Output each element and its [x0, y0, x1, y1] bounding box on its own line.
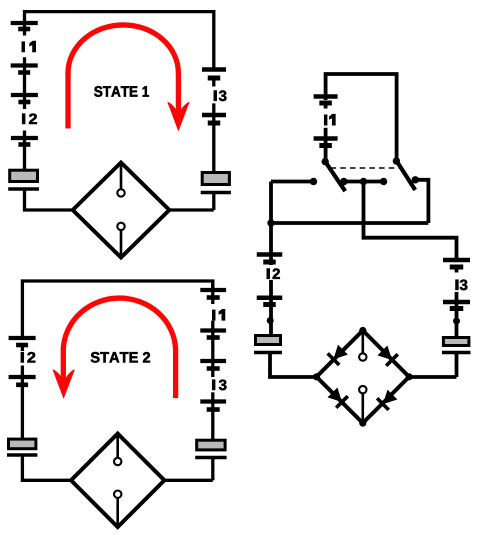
switch pivot left (right circuit) [322, 158, 329, 165]
diode D1 top-left arm (right circuit) [328, 345, 348, 365]
wire stub below I3 cell1 (right) [455, 269, 459, 273]
label I2 (STATE 2) [21, 352, 35, 363]
wire right lead from bridge (STATE 1) [169, 208, 214, 211]
label I2 (STATE 1) [22, 114, 37, 125]
battery I2 cell 2 (right) [257, 298, 283, 305]
bridge top stem (right circuit) [361, 331, 364, 353]
diode bridge diamond (right circuit) [317, 331, 410, 424]
wire top loop (right circuit) [326, 74, 397, 159]
battery I2 cell 1 (STATE 2) [9, 338, 36, 345]
battery I3 cell 2 (STATE 1) [202, 115, 226, 123]
battery I3 cell 1 (right) [443, 260, 470, 267]
wire throw A to left column (right circuit) [271, 180, 314, 184]
wire left column to I2 (right circuit) [269, 182, 273, 266]
wire E to right riser (right circuit) [415, 180, 428, 223]
bridge vertex dot right (right circuit) [406, 373, 413, 380]
battery I3 cell 2 (right) [443, 302, 470, 309]
bridge vertex dot top (right circuit) [359, 327, 366, 334]
battery I1 cell 2 (right) [314, 139, 338, 146]
wire right lead from bridge (right circuit) [409, 375, 457, 379]
wire left lead to bridge (STATE 2) [22, 455, 72, 480]
red current arrow STATE 1 [68, 25, 190, 132]
bridge top contact circle (STATE 1) [117, 189, 124, 196]
switch blade left (right circuit) [325, 162, 345, 192]
wire long horizontal bus (right circuit) [271, 221, 428, 225]
battery I3 cell 1 (STATE 1) [202, 70, 226, 79]
wire right column lower (right circuit) [455, 353, 459, 378]
battery I3 cell 1 (STATE 2) [200, 361, 226, 369]
diode D3 bottom-left arm (right circuit) [328, 388, 348, 408]
battery I2 cell 1 (right) [257, 255, 283, 263]
electrode capacitor right (right circuit) [442, 338, 471, 353]
red current arrow STATE 2 [52, 298, 175, 399]
text STATE 2 [91, 352, 150, 363]
battery I2 cell 2 (STATE 1) [11, 138, 38, 145]
wire left column upper (STATE 1) [23, 23, 26, 36]
label I1 (STATE 2) [212, 309, 225, 320]
bridge diamond (STATE 2) [71, 434, 164, 527]
wire B-D contact bar (right circuit) [344, 180, 384, 184]
bridge bottom contact circle (STATE 2) [114, 491, 121, 498]
bridge vertex dot left (right circuit) [313, 373, 320, 380]
label I3 (STATE 1) [214, 90, 227, 101]
bridge top stem (STATE 1) [120, 164, 123, 190]
wire right column lower (STATE 2) [211, 458, 214, 481]
label I1 (STATE 1) [22, 41, 36, 52]
battery I1 cell 1 (right) [314, 97, 338, 104]
wire right column mid (STATE 1) [212, 103, 215, 172]
junction dot above left electrode (right circuit) [267, 317, 274, 324]
wire I1-I3 link (STATE 2) [211, 321, 214, 377]
battery I3 cell 2 (STATE 2) [200, 402, 226, 410]
electrode capacitor left (right circuit) [254, 336, 282, 353]
bridge top stem (STATE 2) [116, 435, 119, 458]
wire stub below I3 cell1 (STATE 1) [212, 80, 215, 87]
battery I2 cell 1 (STATE 1) [11, 95, 38, 102]
wire below I1 label (right) [324, 128, 328, 162]
bridge bottom stem (STATE 1) [120, 230, 123, 256]
wire stub below I1 cell1 (right) [324, 105, 328, 109]
wire right column mid (right circuit) [455, 292, 459, 337]
wire top loop STATE 1 [25, 12, 214, 71]
label I3 (STATE 2) [212, 380, 226, 391]
battery I1 cell 2 (STATE 1) [11, 66, 38, 73]
label I3 (right) [456, 280, 468, 291]
junction dot above right electrode (right circuit) [453, 318, 460, 325]
bridge diamond (STATE 1) [73, 163, 170, 258]
capacitor left (STATE 2) [7, 439, 37, 455]
wire below I2 label (STATE 2) [21, 366, 24, 439]
wire below I2 label (right) [269, 280, 273, 335]
bridge vertex dot bottom (right circuit) [359, 420, 366, 427]
text STATE 1 [94, 86, 149, 97]
bridge bottom contact circle (right circuit) [359, 386, 366, 393]
bridge bottom contact circle (STATE 1) [117, 223, 124, 230]
bridge top contact circle (right circuit) [359, 353, 366, 360]
battery I1 cell 1 (STATE 2) [200, 290, 226, 298]
wire I1-I2 link (STATE 1) [23, 57, 26, 109]
battery I1 cell 1 (STATE 1) [11, 23, 38, 29]
capacitor right (STATE 2) [195, 440, 226, 457]
contact dot A (right circuit) [310, 178, 317, 185]
wire below I2 label (STATE 1) [23, 131, 26, 171]
bridge bottom stem (STATE 2) [116, 498, 119, 526]
wire right column above cap (STATE 2) [211, 392, 214, 440]
wire right column upper (STATE 2) [211, 281, 214, 304]
wire right lead from bridge (STATE 2) [164, 479, 213, 482]
switch pivot right (right circuit) [393, 157, 400, 164]
contact dot D (right circuit) [380, 178, 387, 185]
bridge bottom stem (right circuit) [361, 393, 364, 422]
wire left lead to bridge (STATE 1) [25, 189, 74, 210]
contact dot C (right circuit) [360, 178, 367, 185]
capacitor right (STATE 1) [201, 173, 231, 193]
battery I2 cell 2 (STATE 2) [9, 377, 36, 385]
wire right column lower (STATE 1) [212, 193, 215, 211]
dashed mechanical link (right circuit) [331, 167, 401, 169]
capacitor left (STATE 1) [8, 170, 39, 189]
wire top loop STATE 2 [22, 281, 212, 340]
junction dot left bus (right circuit) [267, 219, 274, 226]
diode D2 top-right arm (right circuit) [378, 346, 398, 366]
diode D4 bottom-right arm (right circuit) [377, 390, 397, 410]
contact dot E (right circuit) [412, 176, 419, 183]
battery I1 cell 2 (STATE 2) [200, 331, 226, 338]
wire C down-right to I3 (right circuit) [364, 182, 457, 263]
contact dot B (right circuit) [340, 178, 347, 185]
switch blade right (right circuit) [397, 161, 416, 190]
wire left lead to diode bridge (right circuit) [270, 353, 317, 378]
bridge top contact circle (STATE 2) [114, 458, 121, 465]
label I2 (right) [267, 268, 280, 279]
label I1 (right) [324, 114, 335, 125]
wire stub below I2 cell1 (STATE 2) [21, 347, 24, 351]
